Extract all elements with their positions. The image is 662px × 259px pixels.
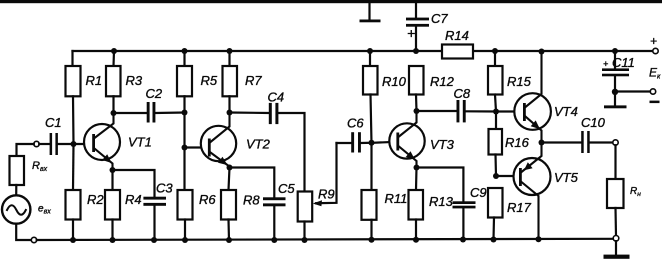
- node VT5 base: [493, 173, 499, 179]
- svg-text:C1: C1: [45, 115, 62, 130]
- resistor R16: [489, 112, 503, 177]
- node VT1 collector: [111, 110, 117, 116]
- svg-text:C8: C8: [454, 86, 471, 101]
- resistor R1: [66, 51, 81, 144]
- node VT4 base: [493, 109, 499, 115]
- svg-text:VT5: VT5: [554, 170, 579, 185]
- resistor R2: [66, 144, 81, 240]
- svg-text:VT2: VT2: [246, 137, 271, 152]
- svg-text:R5: R5: [201, 73, 218, 88]
- capacitor C3: [143, 197, 166, 240]
- terminal + Ek top: [653, 48, 658, 53]
- svg-text:C4: C4: [268, 90, 285, 105]
- resistor R15: [488, 51, 503, 112]
- svg-text:Rн: Rн: [630, 186, 641, 198]
- svg-text:R6: R6: [199, 192, 216, 207]
- svg-text:C10: C10: [581, 115, 606, 130]
- svg-text:Rвх: Rвх: [32, 160, 48, 173]
- svg-text:R17: R17: [507, 200, 532, 215]
- capacitor C6: [337, 132, 372, 152]
- resistor R6: [178, 148, 193, 241]
- svg-text:C6: C6: [347, 116, 364, 131]
- transistor VT3: [389, 111, 424, 168]
- svg-text:C9: C9: [470, 185, 487, 200]
- capacitor C8: [417, 100, 497, 122]
- svg-text:R10: R10: [382, 74, 407, 89]
- capacitor C11: [602, 51, 629, 92]
- node C2/R5: [182, 110, 188, 116]
- terminal common bottom right: [613, 236, 619, 242]
- resistor R17: [488, 188, 503, 240]
- svg-text:R12: R12: [430, 74, 455, 89]
- wire to minus terminal: [615, 90, 650, 92]
- node VT2 base: [182, 145, 188, 151]
- resistor R12: [409, 66, 424, 111]
- transistor VT1: [84, 113, 120, 170]
- node -Ek junction: [612, 89, 618, 95]
- input terminal bottom: [31, 237, 36, 242]
- terminal minus: [650, 89, 655, 94]
- svg-text:R1: R1: [86, 73, 103, 88]
- source eвх: [2, 195, 30, 223]
- resistor Rн load: [607, 145, 624, 235]
- resistor R13: [409, 168, 424, 240]
- wire output to C10: [542, 141, 582, 143]
- wire base VT5: [496, 175, 519, 177]
- resistor R11: [362, 143, 377, 240]
- resistor R3: [106, 51, 121, 113]
- svg-text:R2: R2: [87, 192, 104, 207]
- svg-text:R16: R16: [505, 135, 530, 150]
- wire input left: [17, 144, 34, 156]
- capacitor C2: [114, 102, 185, 123]
- capacitor C9: [453, 201, 476, 239]
- wire emitter to C5: [230, 168, 275, 198]
- svg-text:R9: R9: [318, 187, 335, 202]
- node VT1 emitter: [110, 167, 116, 173]
- node dots on bottom bus: [70, 236, 542, 243]
- svg-text:R13: R13: [429, 194, 454, 209]
- svg-text:C5: C5: [278, 181, 295, 196]
- node VT3 emitter: [414, 165, 420, 171]
- svg-text:C11: C11: [612, 55, 635, 70]
- svg-text:R4: R4: [125, 192, 142, 207]
- resistor R4: [105, 170, 120, 240]
- resistor R9 potentiometer: [298, 143, 337, 240]
- svg-text:VT4: VT4: [554, 104, 578, 119]
- transistor VT5: [514, 143, 551, 240]
- svg-text:евх: евх: [38, 204, 51, 216]
- node VT3 base: [369, 140, 375, 146]
- capacitor C1: [39, 133, 92, 155]
- resistor R8: [221, 168, 236, 241]
- wire emitter to C9: [417, 168, 464, 202]
- resistor R14: [442, 45, 473, 59]
- wire base VT3: [372, 142, 397, 143]
- svg-text:C7: C7: [431, 11, 448, 26]
- resistor R10: [363, 51, 378, 143]
- node output: [539, 140, 545, 146]
- svg-text:+: +: [650, 34, 657, 48]
- svg-text:VT1: VT1: [128, 135, 152, 150]
- svg-text:R8: R8: [243, 193, 260, 208]
- resistor R5: [177, 51, 192, 148]
- svg-text:Eк: Eк: [649, 66, 661, 81]
- transistor VT2: [201, 113, 236, 168]
- ground bottom right: [604, 241, 630, 259]
- ground (top, near C7): [360, 3, 381, 22]
- node dots on top bus: [111, 48, 618, 55]
- wire bottom bus: [37, 239, 614, 240]
- resistor Rвх: [10, 156, 25, 185]
- svg-text:R7: R7: [245, 73, 262, 88]
- resistor R7: [223, 51, 238, 113]
- capacitor C5: [263, 197, 286, 240]
- capacitor C4: [230, 103, 305, 192]
- transistor VT4: [514, 52, 551, 143]
- wire top bus right of R14: [473, 50, 653, 52]
- svg-text:C2: C2: [146, 86, 163, 101]
- wire base VT2: [185, 146, 209, 148]
- svg-text:R14: R14: [445, 28, 469, 43]
- wire top bus: [73, 50, 443, 52]
- node VT2 emitter: [227, 165, 233, 171]
- wire: [15, 185, 17, 195]
- wire base VT4: [496, 110, 523, 112]
- svg-text:R3: R3: [126, 73, 143, 88]
- top scan bar: [0, 0, 662, 3]
- svg-text:+: +: [603, 59, 608, 69]
- capacitor C7: [406, 3, 429, 51]
- node VT1 base: [71, 141, 77, 147]
- node VT3 collector: [414, 108, 420, 114]
- svg-text:+: +: [407, 25, 415, 41]
- common bar below C11: [614, 92, 616, 106]
- svg-text:R15: R15: [507, 74, 532, 89]
- capacitor C10: [581, 131, 613, 153]
- input terminal top: [34, 141, 39, 146]
- wire emitter to C3: [113, 170, 155, 197]
- svg-text:C3: C3: [156, 181, 173, 196]
- svg-text:VT3: VT3: [430, 137, 455, 152]
- terminal output: [613, 140, 618, 145]
- node VT2 collector: [227, 110, 233, 116]
- svg-text:R11: R11: [385, 191, 408, 206]
- wire: [16, 224, 31, 240]
